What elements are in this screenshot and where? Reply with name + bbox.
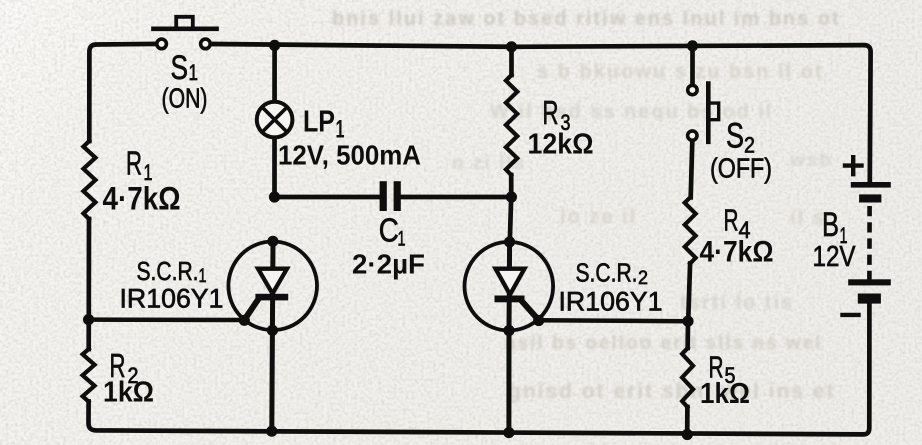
svg-text:4·7kΩ: 4·7kΩ	[700, 236, 774, 269]
svg-text:LP: LP	[303, 104, 335, 139]
svg-text:IR106Y1: IR106Y1	[559, 287, 663, 317]
svg-text:R: R	[126, 145, 142, 182]
svg-text:2·2µF: 2·2µF	[352, 249, 425, 280]
svg-text:12kΩ: 12kΩ	[528, 129, 594, 161]
svg-text:C: C	[379, 211, 399, 248]
svg-text:S: S	[726, 117, 744, 156]
svg-text:1: 1	[189, 60, 199, 85]
svg-text:1kΩ: 1kΩ	[700, 378, 750, 410]
svg-text:R: R	[724, 203, 739, 238]
svg-text:S: S	[171, 49, 189, 87]
svg-text:(ON): (ON)	[162, 83, 208, 114]
svg-text:1kΩ: 1kΩ	[103, 377, 154, 409]
svg-text:12V, 500mA: 12V, 500mA	[278, 140, 421, 171]
svg-text:4·7kΩ: 4·7kΩ	[103, 181, 181, 217]
svg-text:IR106Y1: IR106Y1	[120, 284, 224, 314]
svg-text:12V: 12V	[813, 241, 857, 273]
svg-text:1: 1	[398, 228, 406, 251]
svg-text:(OFF): (OFF)	[710, 153, 772, 184]
svg-text:R: R	[543, 94, 559, 131]
svg-text:S.C.R.: S.C.R.	[576, 258, 638, 288]
svg-text:B: B	[822, 206, 839, 244]
svg-text:S.C.R.: S.C.R.	[137, 256, 199, 286]
